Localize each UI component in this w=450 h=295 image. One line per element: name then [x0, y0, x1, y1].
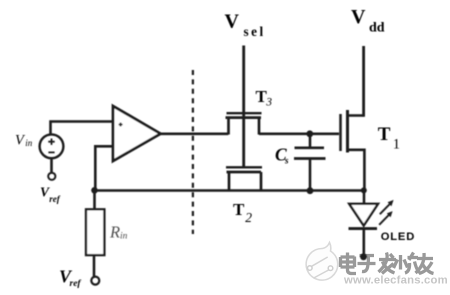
terminal OLED cathode: [360, 253, 367, 260]
label V_set: [59, 266, 81, 289]
dashed partition line: [192, 70, 194, 234]
svg-text:1: 1: [393, 136, 400, 152]
terminal V_set: [91, 277, 99, 285]
wire: V_dd rail: [362, 46, 365, 117]
wire: V_sel rail: [242, 46, 245, 167]
capacitor C_s: [294, 134, 326, 191]
svg-text:in: in: [120, 232, 128, 242]
node C_s top: [306, 130, 313, 137]
svg-text:2: 2: [245, 210, 252, 225]
svg-text:T: T: [233, 200, 245, 219]
node inverting junction: [91, 187, 98, 194]
terminal V_ref: [48, 173, 55, 180]
wire: op-amp output to T3: [159, 133, 228, 136]
node OLED anode: [361, 187, 367, 193]
svg-text:www.elecfans.com: www.elecfans.com: [343, 275, 448, 287]
svg-text:ref: ref: [49, 194, 60, 204]
node C_s bottom: [307, 187, 314, 194]
voltage source V_in: [40, 134, 64, 158]
transistor T3: [226, 113, 262, 134]
label V_sel: [225, 10, 266, 39]
transistor T1: [341, 110, 365, 191]
watermark chinese characters: [341, 253, 434, 274]
label T2: [233, 200, 252, 225]
svg-text:3: 3: [265, 97, 272, 109]
label C_s: [275, 144, 289, 165]
svg-text:in: in: [25, 138, 33, 148]
label T1: [378, 124, 400, 152]
OLED diode: [349, 191, 379, 256]
svg-text:s: s: [284, 156, 289, 166]
友: [416, 253, 434, 274]
wire: T3 to C_s node and T1 gate: [259, 133, 339, 136]
发: [379, 253, 397, 274]
label T3: [256, 87, 273, 109]
wire: inverting input: [95, 146, 113, 190]
svg-text:ref: ref: [70, 279, 82, 289]
svg-text:sel: sel: [244, 24, 266, 39]
resistor R_in: [86, 209, 104, 255]
watermark logo: [306, 243, 338, 281]
wire: resistor to set terminal: [93, 255, 96, 277]
电: [341, 253, 357, 274]
transistor T2: [226, 167, 262, 191]
svg-text:V: V: [225, 10, 240, 32]
子: [358, 256, 376, 272]
svg-text:R: R: [109, 223, 120, 242]
svg-text:T: T: [378, 124, 391, 145]
OLED light arrows: [379, 200, 393, 225]
svg-text:OLED: OLED: [381, 231, 415, 243]
op-amp U1: [113, 106, 161, 161]
label R_in: [109, 223, 128, 242]
烧: [394, 253, 421, 274]
wire: bottom feedback rail: [95, 189, 365, 192]
svg-text:dd: dd: [369, 21, 385, 36]
svg-text:V: V: [351, 6, 366, 28]
label V_dd: [351, 6, 385, 35]
label V_ref: [40, 184, 61, 203]
wire: junction to resistor: [93, 191, 96, 210]
wire: Vin top to op-amp plus input: [51, 122, 113, 136]
wire: source bottom to ref terminal: [50, 158, 53, 173]
label V_in: [15, 132, 33, 148]
